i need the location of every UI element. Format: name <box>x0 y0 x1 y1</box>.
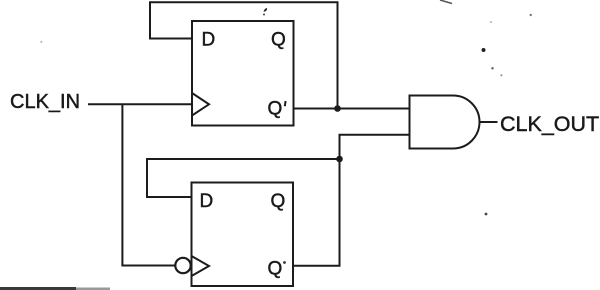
U2 clock inversion bubble <box>175 258 190 273</box>
wire U2 feedback loop from mid net to D <box>147 159 340 197</box>
svg-text:Q: Q <box>271 30 286 51</box>
svg-text:Q: Q <box>268 259 283 280</box>
svg-text:CLK_OUT: CLK_OUT <box>500 112 599 136</box>
wire CLK_IN to top flip-flop clock <box>88 103 192 105</box>
svg-text:Q: Q <box>268 99 283 120</box>
junction dot on U1 Q' net <box>334 105 341 112</box>
scan artifact: apostrophe speck above U1 <box>264 8 268 12</box>
AND gate U3 <box>410 96 480 149</box>
wire U1 Q' output to AND gate upper input <box>294 108 410 110</box>
scan artifact specks right side <box>530 14 532 16</box>
junction dot on U2 Q' net <box>336 156 343 163</box>
U1 clock edge triangle <box>192 93 209 116</box>
svg-text:D: D <box>200 191 214 212</box>
wire U2 Q' output up to mid net <box>293 159 340 266</box>
U2 clock edge triangle <box>192 256 210 276</box>
D flip-flop U2 (bottom) body <box>192 183 294 287</box>
wire CLK_IN branch down to bottom flip-flop clock <box>122 104 174 265</box>
wire mid net up to AND gate lower input <box>340 135 410 159</box>
svg-text:D: D <box>202 30 216 51</box>
svg-text:Q: Q <box>271 191 286 212</box>
wire U1 feedback loop Q' to D <box>150 2 338 108</box>
D flip-flop U1 (top) body <box>192 21 294 126</box>
scan artifact: top edge streak <box>440 0 452 4</box>
wire AND gate output <box>480 121 498 123</box>
scan artifact: bottom-left dark bar <box>0 287 76 290</box>
svg-text:CLK_IN: CLK_IN <box>10 91 80 113</box>
